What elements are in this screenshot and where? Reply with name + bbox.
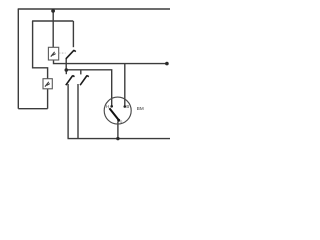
wire switch VM bottom lead: [117, 122, 119, 139]
wire bus A top: [18, 8, 170, 10]
wire PP1 bottom lead to H bus: [54, 60, 167, 64]
node dot top bus: [51, 9, 55, 13]
wire PP2 top lead: [33, 21, 48, 79]
switch VM lever: [109, 108, 119, 120]
svg-text:0: 0: [120, 120, 122, 124]
node dot middle bus: [65, 68, 69, 72]
contact blade 1 (upper switch): [66, 50, 76, 59]
svg-text:ВМ: ВМ: [137, 106, 144, 111]
wire bus B: [32, 20, 73, 22]
switch VM terminal dots: [110, 105, 113, 108]
node dot bottom bus: [116, 137, 119, 140]
terminal dot right end of H bus: [165, 62, 169, 66]
wire left vertical: [17, 9, 19, 109]
wire PP2 bottom lead: [47, 89, 49, 109]
contact blade 3 (lower right): [80, 75, 89, 85]
wire fixed contact upper: [72, 21, 74, 47]
wire switch right top lead: [124, 64, 126, 107]
wire blade1 lower lead: [65, 58, 67, 70]
wire lower-left vertical 2: [77, 84, 79, 139]
wire bus C middle: [66, 70, 111, 107]
wire node to PP1: [52, 10, 54, 48]
relay PP1 symbol: [51, 52, 56, 57]
wire bottom bus: [68, 138, 171, 140]
relay PP2 symbol: [45, 82, 50, 87]
wire lower-left vertical 1: [67, 84, 69, 139]
switch VM circle: [104, 97, 131, 124]
svg-text:В: В: [126, 104, 129, 109]
wire bottom-left horizontal: [18, 108, 47, 110]
wire contact stub 2: [65, 70, 67, 74]
relay box PP1: [48, 47, 58, 60]
contact blade 2 (lower left): [66, 75, 75, 85]
svg-text:Н: Н: [106, 104, 109, 109]
mechanical link dashed: [59, 52, 66, 54]
wire contact stub 3: [80, 70, 82, 75]
relay box PP2: [43, 79, 52, 89]
